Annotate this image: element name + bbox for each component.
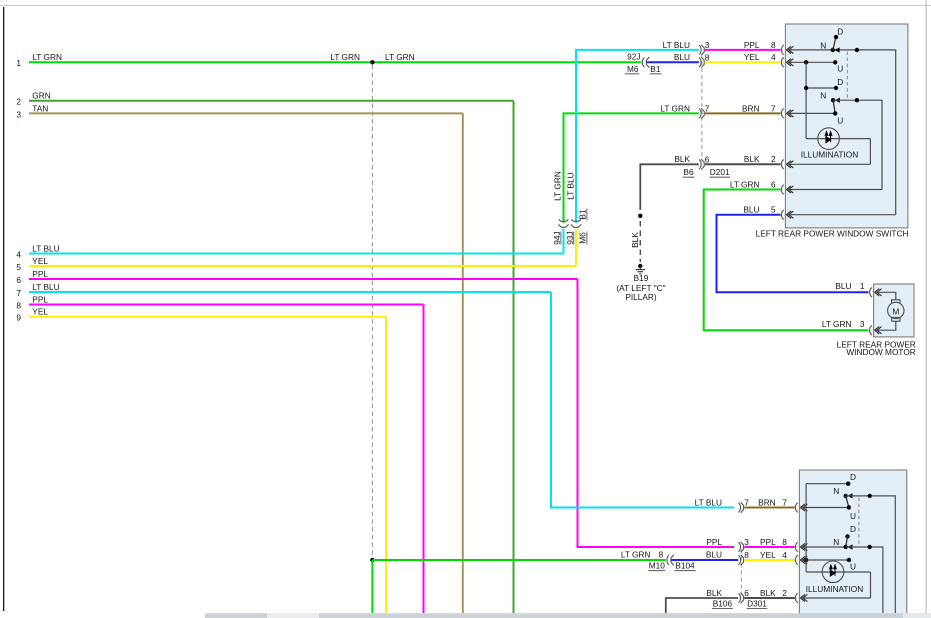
svg-text:M10: M10 [649, 561, 666, 571]
svg-text:LT GRN: LT GRN [822, 319, 852, 329]
svg-text:BLK: BLK [630, 232, 640, 248]
svg-text:BLK: BLK [744, 154, 760, 164]
contact D2 line [806, 87, 836, 89]
svg-text:N: N [820, 91, 826, 101]
illumination bulb through line [806, 138, 870, 140]
switch pole 2 arrowhead [835, 98, 840, 103]
svg-text:D: D [837, 26, 843, 36]
illumination bulb filament arrows [825, 132, 832, 143]
switch2 contact D1 line [806, 483, 848, 485]
label 93J underline [573, 232, 575, 245]
svg-text:PILLAR): PILLAR) [625, 292, 657, 302]
connector D301 row1 male half [741, 502, 744, 512]
svg-text:6: 6 [771, 179, 776, 189]
switch2 internal line pin4 to contact U2 [800, 559, 849, 561]
svg-text:6: 6 [16, 275, 21, 285]
svg-text:6: 6 [744, 588, 749, 598]
switch pin 2 edge connector male arrow [786, 161, 793, 168]
switch2 pin 2 edge connector female [795, 593, 797, 603]
svg-text:5: 5 [771, 205, 776, 215]
svg-text:BLU: BLU [674, 52, 690, 62]
switch pole 1 blade to D [833, 37, 836, 50]
connector D201 row4 female half [699, 160, 701, 170]
switch2 node pin4 branch dot [804, 558, 808, 562]
connector D301 row4 female half [739, 593, 741, 603]
svg-text:BLU: BLU [743, 205, 759, 215]
wire 4 LT BLU vertical riser [563, 229, 565, 254]
svg-text:YEL: YEL [760, 550, 776, 560]
switch2 internal line pole1 to right riser [846, 496, 896, 613]
wire LT GRN switch pin6 to motor riser [704, 190, 869, 331]
switch internal line pin5 [786, 214, 895, 216]
connector D301 row4 male half [741, 593, 744, 603]
svg-text:LT BLU: LT BLU [32, 243, 59, 253]
wire 3 TAN horizontal [29, 112, 463, 114]
svg-text:PPL: PPL [32, 269, 48, 279]
switch2 contact D2 dot [845, 534, 849, 538]
svg-text:4: 4 [782, 550, 787, 560]
node junction dot on BLK riser [638, 214, 642, 218]
wire 8 PPL vertical drop [423, 305, 425, 614]
right frame line [926, 0, 927, 618]
svg-text:TAN: TAN [32, 103, 48, 113]
wire LT GRN riser from connector 94J up to row 3 [564, 113, 699, 222]
wire 9 YEL horizontal [29, 316, 386, 318]
switch internal line pin2 [786, 163, 870, 165]
switch2 contact U1 dot [847, 505, 851, 509]
motor terminal bottom rect [892, 317, 900, 321]
wire BLK D301 row4 to switch [744, 597, 795, 599]
motor pin 3 edge connector female [870, 325, 872, 335]
switch2 illumination bulb through line [806, 571, 870, 573]
switch2 pole 2 pivot dot [844, 545, 848, 549]
wire BRN row3 to switch [705, 112, 781, 114]
svg-text:U: U [837, 64, 843, 74]
wire 8 PPL horizontal [29, 304, 424, 306]
switch2 pin 7 edge connector female [795, 503, 797, 513]
switch pin 7 edge connector female [781, 109, 783, 119]
node pin4 branch dot [804, 60, 808, 64]
left rear power window motor box [874, 284, 914, 337]
top frame line [0, 5, 931, 6]
connector D301 row3 male half [741, 555, 744, 565]
switch2 illumination bulb filament arrows [830, 565, 837, 576]
svg-text:YEL: YEL [744, 52, 760, 62]
svg-text:LT GRN: LT GRN [330, 52, 360, 62]
svg-text:D: D [850, 472, 856, 482]
svg-text:B1: B1 [578, 209, 588, 220]
svg-text:YEL: YEL [32, 307, 48, 317]
wire BLU switch pin5 to motor riser [717, 215, 869, 293]
svg-text:92J: 92J [627, 51, 640, 61]
svg-text:PPL: PPL [760, 537, 776, 547]
inline connector 93J male half [571, 224, 581, 227]
svg-text:3: 3 [705, 40, 710, 50]
switch2 contact D1 dot [846, 482, 850, 486]
wire LT GRN bottom drop to lower box [371, 560, 373, 613]
contact D2 dot [834, 86, 838, 90]
svg-text:LEFT REAR POWER WINDOW SWITCH: LEFT REAR POWER WINDOW SWITCH [756, 229, 909, 239]
svg-text:4: 4 [16, 249, 21, 259]
inline connector M10/B104 male half [671, 555, 674, 566]
svg-text:LT GRN: LT GRN [385, 52, 415, 62]
switch2 internal line pin2 [800, 597, 870, 599]
wire BLU segment after M6/B1 connector [647, 61, 699, 63]
wire BRN D301 row1 to switch [744, 507, 795, 509]
wire 7 LT BLU horizontal [29, 291, 551, 293]
connector D301 row1 female half [739, 503, 741, 513]
wire 6 PPL horizontal [29, 278, 578, 280]
svg-text:M6: M6 [578, 232, 588, 244]
svg-text:N: N [833, 537, 839, 547]
node S1 junction dot on wire 1 [370, 60, 374, 64]
svg-text:7: 7 [744, 498, 749, 508]
svg-text:BLU: BLU [835, 281, 851, 291]
bottom band right light segment [903, 613, 931, 618]
wire 7 LT BLU vertical drop [551, 292, 734, 508]
motor pin 1 edge connector female [870, 288, 872, 298]
switch pin 4 edge connector male arrow [786, 59, 793, 66]
svg-text:M: M [892, 307, 899, 317]
svg-text:9: 9 [16, 313, 21, 323]
motor terminal top rect [892, 300, 900, 304]
wire 2 GRN vertical [513, 101, 515, 613]
svg-text:3: 3 [860, 319, 865, 329]
label 94J underline [560, 232, 562, 245]
switch2 pole 1 blade to U [846, 496, 849, 508]
switch2 pin 2 edge connector male arrow [800, 594, 807, 601]
label B104 underline [675, 570, 696, 572]
svg-text:7: 7 [782, 497, 787, 507]
svg-text:U: U [850, 562, 856, 572]
inline connector M6/B1 female half on wire 1 [642, 57, 644, 67]
switch2 internal line pole2 to right riser [846, 547, 883, 613]
svg-text:8: 8 [744, 550, 749, 560]
contact D1 dot [834, 35, 838, 39]
wire 4 LT BLU horizontal [29, 253, 564, 255]
connector D301 row2 female half [739, 542, 741, 552]
connector D201 row1 female half [699, 45, 701, 55]
svg-text:U: U [837, 116, 843, 126]
switch2 pole 1 pivot dot [844, 494, 848, 498]
switch2 pole 2 junction dot [868, 545, 872, 549]
inline connector 93J female half [571, 220, 581, 222]
svg-text:3: 3 [744, 537, 749, 547]
connector D201 row4 male half [701, 159, 704, 169]
svg-text:D201: D201 [710, 167, 730, 177]
svg-text:LT GRN: LT GRN [621, 550, 651, 560]
connector D201 row1 male half [701, 45, 704, 55]
svg-text:N: N [820, 40, 826, 50]
ground symbol B19 [636, 266, 645, 274]
svg-text:7: 7 [705, 104, 710, 114]
switch internal line pin4 to contact U1 [786, 61, 835, 63]
svg-text:WINDOW MOTOR: WINDOW MOTOR [846, 347, 915, 357]
wire YEL row2 to switch [705, 61, 781, 63]
wire 6 PPL vertical drop [578, 279, 735, 547]
wire BLU segment after M10/B104 [671, 559, 738, 561]
switch pole 2 junction dot [855, 98, 859, 102]
svg-text:6: 6 [705, 155, 710, 165]
svg-text:7: 7 [771, 103, 776, 113]
svg-text:8: 8 [659, 550, 664, 560]
switch2 contact U2 dot [847, 558, 851, 562]
connector D201 row3 male half [701, 108, 704, 118]
svg-text:N: N [833, 486, 839, 496]
contact U2 dot [833, 111, 837, 115]
switch pole 2 pivot dot [831, 98, 835, 102]
wire LT BLU riser from connector 93J up to row 1 [576, 50, 699, 223]
illumination bulb circle [818, 128, 840, 150]
wire 3 TAN vertical [462, 113, 464, 613]
connector D301 row2 male half [741, 542, 744, 552]
svg-text:8: 8 [782, 537, 787, 547]
svg-text:BRN: BRN [742, 103, 760, 113]
svg-text:BLK: BLK [674, 154, 690, 164]
label D201 underline [710, 176, 731, 178]
inline connector 94J male half [558, 224, 568, 227]
switch internal branch riser x=806 [805, 62, 807, 138]
bottom band [205, 613, 931, 618]
switch pin 8 edge connector male arrow [786, 46, 793, 53]
switch2 internal line pin7 to contact U1 [800, 507, 849, 509]
label D301 underline [747, 608, 768, 610]
svg-text:LT BLU: LT BLU [566, 172, 576, 199]
connector D201 dashed column [701, 54, 703, 161]
svg-text:5: 5 [16, 262, 21, 272]
switch2 pin 8 edge connector female [795, 542, 797, 552]
switch2 pin 8 edge connector male arrow [800, 543, 807, 550]
wire 2 GRN horizontal [29, 100, 514, 102]
svg-text:8: 8 [771, 40, 776, 50]
switch internal line pin7 to contact U2 [786, 112, 835, 114]
svg-text:D: D [850, 524, 856, 534]
svg-text:B1: B1 [650, 64, 661, 74]
switch2 pin 4 edge connector female [795, 555, 797, 565]
svg-text:LT BLU: LT BLU [663, 40, 690, 50]
switch2 internal line pin8 to pole 2 pivot [800, 546, 845, 548]
wire 1 dashed continuation down [371, 65, 373, 558]
wire BLK bottom riser from band [666, 598, 738, 613]
svg-text:B19: B19 [634, 273, 649, 283]
svg-text:BLU: BLU [706, 550, 722, 560]
svg-text:B106: B106 [713, 598, 733, 608]
switch mechanical link dashed pole1-pole2 [846, 52, 848, 100]
switch internal line pin6 [786, 189, 882, 191]
wire 5 YEL horizontal [29, 265, 576, 267]
label M6 underline vertical [586, 232, 588, 245]
svg-text:LT BLU: LT BLU [695, 497, 722, 507]
wire YEL D301 row3 to switch [744, 559, 795, 561]
wire 9 YEL vertical drop [385, 317, 387, 613]
svg-text:U: U [850, 511, 856, 521]
svg-text:D301: D301 [747, 598, 767, 608]
svg-text:PPL: PPL [32, 294, 48, 304]
motor internal line pin3 [875, 321, 896, 330]
wire PPL row1 to switch [705, 49, 781, 51]
contact U1 dot [833, 60, 837, 64]
switch pole 1 arrowhead [834, 47, 839, 52]
wire BLK from B19 ground riser [640, 164, 699, 210]
switch internal line pole 2 to right riser [833, 100, 882, 189]
switch2 pole 2 arrowhead [847, 544, 852, 549]
label B6 underline [683, 176, 695, 178]
wire 1 LT GRN horizontal [29, 61, 641, 63]
svg-text:PPL: PPL [706, 537, 722, 547]
label B1 underline vertical [586, 209, 588, 221]
svg-text:2: 2 [771, 154, 776, 164]
motor armature circle [888, 302, 904, 318]
switch pin 4 edge connector female [781, 58, 783, 68]
switch2 pin 7 edge connector male arrow [800, 504, 807, 511]
label B1 underline [650, 73, 662, 75]
switch pin 2 edge connector female [781, 160, 783, 170]
svg-text:LT GRN: LT GRN [660, 103, 690, 113]
svg-text:LT BLU: LT BLU [32, 282, 59, 292]
switch2 pin 4 edge connector male arrow [800, 556, 807, 563]
svg-text:ILLUMINATION: ILLUMINATION [806, 584, 863, 594]
switch pin 7 edge connector male arrow [786, 110, 793, 117]
svg-text:YEL: YEL [32, 256, 48, 266]
svg-text:1: 1 [860, 281, 865, 291]
switch2 branch riser x=806 [805, 484, 807, 572]
svg-text:PPL: PPL [744, 40, 760, 50]
label B106 underline [712, 608, 733, 610]
left frame line [3, 7, 4, 611]
switch pole 1 pivot dot [831, 48, 835, 52]
inline connector M10/B104 female half [667, 555, 669, 565]
svg-text:7: 7 [16, 288, 21, 298]
switch2 illumination return line to pin 2 [870, 572, 872, 598]
connector D201 row3 female half [699, 109, 701, 119]
switch pin 5 edge connector male arrow [786, 211, 793, 218]
ground node dot B19 [638, 264, 642, 268]
inline connector M6/B1 male half [646, 57, 649, 68]
inline connector 94J female half [559, 220, 569, 222]
label M10 underline [649, 570, 666, 572]
connector D301 dashed column [740, 550, 742, 596]
svg-text:BLK: BLK [706, 588, 722, 598]
switch internal line pin8 to pole 1 and right riser [786, 50, 895, 215]
svg-text:BLK: BLK [760, 588, 776, 598]
svg-text:8: 8 [705, 53, 710, 63]
svg-text:1: 1 [16, 58, 21, 68]
switch pin 6 edge connector female [781, 185, 783, 195]
switch2 pole 1 junction dot [868, 494, 872, 498]
label M6 underline [625, 73, 639, 75]
switch pin 5 edge connector female [781, 210, 783, 220]
svg-text:LT GRN: LT GRN [553, 171, 563, 201]
wire LT GRN bottom horizontal [372, 559, 665, 561]
svg-text:LT GRN: LT GRN [730, 179, 760, 189]
svg-text:ILLUMINATION: ILLUMINATION [801, 149, 858, 159]
motor internal line pin1 [875, 292, 896, 300]
svg-text:2: 2 [782, 588, 787, 598]
svg-text:D: D [837, 77, 843, 87]
switch pole 1 junction dot [855, 48, 859, 52]
svg-text:B104: B104 [675, 561, 695, 571]
svg-text:GRN: GRN [32, 91, 50, 101]
connector D201 row2 female half [699, 58, 701, 68]
switch2 mechanical link dashed [858, 498, 860, 546]
wire BLK row4 to switch [705, 163, 781, 165]
switch2 pole 1 arrowhead [847, 493, 852, 498]
wire 5 YEL vertical riser [575, 229, 577, 266]
svg-text:B6: B6 [683, 167, 694, 177]
svg-text:LT GRN: LT GRN [32, 52, 62, 62]
switch pin 8 edge connector female [781, 45, 783, 55]
svg-text:8: 8 [16, 300, 21, 310]
svg-text:2: 2 [16, 97, 21, 107]
switch2 illumination bulb circle [822, 561, 844, 583]
switch pin 6 edge connector male arrow [786, 186, 793, 193]
wire BLK dashed to ground [639, 221, 641, 262]
connector D301 row3 female half [739, 555, 741, 565]
node D2 branch dot [804, 86, 808, 90]
left rear power window switch box [785, 24, 908, 228]
motor pin 1 edge connector male arrow [875, 289, 882, 296]
illumination return line to pin 2 [869, 139, 871, 165]
node junction dot bottom of dashed riser [370, 558, 374, 562]
svg-text:M6: M6 [627, 64, 639, 74]
svg-text:4: 4 [771, 52, 776, 62]
bottom band light segment [267, 613, 319, 618]
svg-text:3: 3 [16, 109, 21, 119]
motor pin 3 edge connector male arrow [875, 327, 882, 334]
wire PPL D301 row2 to switch [744, 546, 795, 548]
svg-text:BRN: BRN [758, 497, 776, 507]
right rear power window switch box (cut off at bottom) [799, 470, 906, 618]
switch pole 2 blade to U [833, 100, 835, 113]
connector D201 row2 male half [701, 57, 704, 67]
switch2 pole 2 blade to D2 [846, 536, 848, 547]
